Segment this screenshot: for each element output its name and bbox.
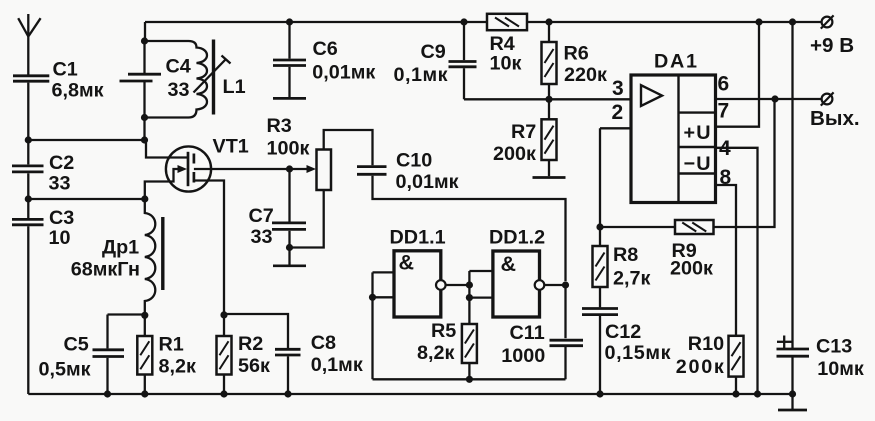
svg-text:Вых.: Вых.	[810, 107, 860, 130]
label C5	[64, 334, 89, 356]
node DD1.2 in upper	[466, 281, 473, 288]
wire node rail y140	[28, 139, 144, 141]
svg-text:2,7к: 2,7к	[613, 268, 650, 290]
svg-text:C9: C9	[421, 41, 446, 63]
svg-text:8,2к: 8,2к	[159, 356, 196, 378]
node C8 gnd	[284, 390, 291, 397]
svg-text:0,1мк: 0,1мк	[311, 354, 363, 376]
resistor R2	[217, 315, 232, 394]
capacitor C6	[273, 60, 306, 66]
label R7	[511, 121, 536, 143]
DA1 -U	[684, 153, 711, 175]
label C5 value	[39, 359, 91, 381]
label R4 value	[490, 53, 522, 75]
pin 8	[720, 166, 732, 189]
node R1 gnd	[141, 390, 148, 397]
label C3	[49, 207, 74, 229]
label R3	[267, 115, 292, 137]
node quench out	[562, 281, 569, 288]
wire tank to VT1	[146, 140, 188, 158]
label Dr1	[102, 237, 139, 259]
label C13	[816, 336, 852, 358]
svg-text:0,15мк: 0,15мк	[605, 342, 671, 364]
svg-text:R8: R8	[613, 244, 638, 266]
capacitor C5	[93, 350, 125, 357]
wire node rail y199	[28, 198, 145, 200]
svg-text:0,01мк: 0,01мк	[312, 62, 375, 84]
svg-text:C4: C4	[166, 56, 191, 78]
svg-text:33: 33	[168, 79, 190, 101]
pin 3	[612, 77, 624, 100]
label VT1	[213, 136, 249, 158]
svg-text:C7: C7	[249, 205, 274, 227]
label R6 value	[564, 64, 607, 86]
label C2 value	[49, 173, 71, 195]
svg-text:8: 8	[720, 166, 732, 189]
capacitor C11	[550, 340, 584, 346]
node B1	[25, 195, 32, 202]
capacitor C7	[272, 223, 306, 230]
label C4 value	[168, 79, 190, 101]
node R6 top	[545, 18, 552, 25]
label C4	[166, 56, 191, 78]
svg-text:8,2к: 8,2к	[417, 342, 454, 364]
label R8	[613, 244, 638, 266]
label R9 value	[670, 258, 713, 280]
label Vykh	[810, 107, 860, 130]
label C10 value	[396, 171, 459, 193]
DD1.1 AND sign	[399, 251, 415, 275]
resistor R5	[462, 324, 477, 379]
label C8 value	[311, 354, 363, 376]
wire DD1.1 out	[446, 284, 470, 286]
inductor L1	[145, 41, 208, 118]
node R6 bottom	[545, 96, 552, 103]
DA1 divider	[677, 75, 679, 203]
wire C7 branch	[288, 169, 290, 265]
ground below C6	[273, 97, 306, 100]
label R5 value	[417, 342, 454, 364]
svg-text:R2: R2	[238, 333, 263, 355]
svg-text:R6: R6	[564, 43, 589, 65]
node source	[220, 311, 227, 318]
wire gate lead	[145, 169, 179, 199]
node C7 tap	[286, 165, 293, 172]
capacitor C1	[13, 76, 49, 81]
capacitor C9	[449, 62, 477, 67]
svg-text:100к: 100к	[267, 138, 310, 160]
VT1 source segment	[193, 172, 196, 183]
svg-text:33: 33	[251, 226, 273, 248]
wire to C8	[224, 314, 288, 348]
svg-text:VT1: VT1	[213, 136, 249, 158]
svg-text:68мкГн: 68мкГн	[71, 259, 140, 281]
VT1 drain segment	[193, 154, 196, 164]
wire R9 to output	[714, 99, 775, 227]
DD1.1 output bubble	[436, 280, 446, 290]
antenna	[18, 18, 40, 36]
terminal output	[821, 92, 834, 105]
svg-text:200к: 200к	[493, 143, 536, 165]
node C9 top	[460, 18, 467, 25]
node R10 gnd	[732, 390, 739, 397]
svg-text:10мк: 10мк	[817, 358, 864, 380]
wire DD1.2 inputs	[469, 271, 493, 324]
label C12	[605, 321, 641, 343]
label +9V	[810, 34, 854, 57]
wire pin3	[549, 98, 631, 100]
wire C8 bottom	[287, 356, 289, 394]
svg-text:C11: C11	[510, 322, 545, 344]
label C9	[421, 41, 446, 63]
svg-text:&: &	[501, 252, 517, 276]
ground below R7	[533, 176, 566, 179]
svg-text:56к: 56к	[238, 355, 270, 377]
logic gate DD1.2	[493, 251, 540, 317]
label R2	[238, 333, 263, 355]
wire R8 to R9	[600, 226, 675, 228]
wire C9 branch	[464, 22, 549, 99]
label C11 value	[501, 345, 545, 367]
svg-text:R7: R7	[511, 121, 536, 143]
DD1.2 AND sign	[501, 252, 517, 276]
svg-text:0,5мк: 0,5мк	[39, 359, 91, 381]
svg-text:10: 10	[49, 227, 71, 249]
L1 adjust arrow	[194, 56, 231, 93]
svg-text:C6: C6	[313, 38, 338, 60]
wire C10 to DD1.2 out	[373, 176, 566, 281]
wire tank C4 branch	[143, 22, 146, 140]
wire VT1 to R3	[194, 168, 308, 170]
svg-text:&: &	[399, 251, 415, 275]
pin 4	[719, 137, 731, 160]
svg-text:4: 4	[719, 137, 731, 160]
svg-text:R3: R3	[267, 115, 292, 137]
wire top +9V rail	[145, 21, 822, 23]
label C7 value	[251, 226, 273, 248]
ground symbol bottom right	[778, 394, 807, 410]
svg-text:DD1.2: DD1.2	[489, 227, 545, 249]
DA1 triangle	[641, 85, 662, 106]
wire +9V down to C13	[791, 22, 793, 349]
wire C11 top	[564, 285, 566, 338]
op-amp DA1 box	[631, 75, 716, 203]
svg-text:200к: 200к	[670, 258, 713, 280]
node R8 top	[596, 223, 603, 230]
VT1 channel line	[187, 152, 190, 186]
wire pin8	[716, 185, 737, 336]
svg-text:7: 7	[718, 100, 730, 123]
pin 6	[718, 73, 730, 96]
R3 wiper arrow	[307, 165, 317, 173]
ground below C7	[273, 264, 306, 267]
svg-text:0,01мк: 0,01мк	[396, 171, 459, 193]
wire R3 bottom	[290, 190, 324, 248]
logic gate DD1.1	[394, 251, 441, 317]
wire C12 bottom	[599, 316, 601, 394]
DD1.2 output bubble	[535, 280, 545, 290]
wire pin4	[716, 148, 758, 394]
capacitor C2	[12, 166, 44, 172]
transistor VT1 body	[166, 146, 211, 191]
label R3 value	[267, 138, 310, 160]
node C5 gnd	[104, 390, 111, 397]
capacitor C10	[357, 167, 387, 175]
resistor R8	[593, 227, 608, 307]
node pin7 rail	[755, 18, 762, 25]
label C3 value	[49, 227, 71, 249]
label C1	[53, 59, 78, 81]
pin 2	[612, 101, 624, 124]
C13 polarity +	[777, 336, 792, 349]
wire to C5	[108, 315, 145, 349]
label C6	[313, 38, 338, 60]
wire pin6 output	[716, 98, 822, 100]
wire DD1.1 inputs	[373, 272, 395, 379]
resistor R1	[137, 315, 152, 394]
wire C5 bottom	[106, 358, 108, 394]
svg-text:C2: C2	[49, 152, 74, 174]
svg-text:1000: 1000	[501, 345, 545, 367]
node DD1.2 in lower	[466, 294, 473, 301]
resistor R7	[542, 99, 557, 176]
label C2	[49, 152, 74, 174]
node R2 gnd	[220, 390, 227, 397]
resistor R6	[542, 22, 557, 99]
svg-text:6,8мк: 6,8мк	[52, 80, 104, 102]
label DA1	[654, 51, 697, 73]
wire left column (antenna feed)	[27, 14, 29, 394]
svg-text:220к: 220к	[564, 64, 607, 86]
svg-text:C10: C10	[396, 150, 432, 172]
resistor R4	[487, 14, 527, 30]
svg-text:C5: C5	[64, 334, 89, 356]
svg-text:L1: L1	[223, 76, 246, 98]
svg-text:C3: C3	[49, 207, 74, 229]
label C11	[510, 322, 545, 344]
label C13 value	[817, 358, 864, 380]
node tank top	[141, 37, 148, 44]
svg-text:C13: C13	[816, 336, 852, 358]
capacitor C12	[582, 309, 618, 315]
label C1 value	[52, 80, 104, 102]
label DD1.2	[489, 227, 545, 249]
DA1 +U	[684, 122, 711, 144]
Dr1 core bar	[161, 217, 164, 290]
label Dr1 value	[71, 259, 140, 281]
label R10 value	[676, 356, 724, 378]
svg-text:R10: R10	[688, 333, 724, 355]
node R5 bottom	[466, 376, 473, 383]
node C13 gnd	[789, 390, 796, 397]
svg-text:DA1: DA1	[654, 51, 697, 73]
label DD1.1	[390, 227, 446, 249]
svg-text:−U: −U	[684, 153, 711, 175]
capacitor C8	[275, 349, 301, 355]
svg-text:+U: +U	[684, 122, 711, 144]
wire pin2	[600, 128, 631, 227]
svg-text:+9 В: +9 В	[810, 34, 854, 57]
label R10	[688, 333, 724, 355]
resistor R3 (pot)	[317, 150, 332, 191]
terminal +9V	[821, 15, 834, 28]
svg-text:10к: 10к	[490, 53, 522, 75]
wire DD1.2 out	[544, 284, 565, 286]
node C12 gnd	[596, 390, 603, 397]
svg-text:Др1: Др1	[102, 237, 139, 259]
label C10	[396, 150, 432, 172]
wire feedback loop	[373, 346, 566, 379]
label R2 value	[238, 355, 270, 377]
label R5	[431, 320, 456, 342]
node DD1.1 input	[369, 294, 376, 301]
label C8	[311, 332, 336, 354]
label R1 value	[159, 356, 196, 378]
inductor Dr1	[145, 199, 156, 315]
label R6	[564, 43, 589, 65]
resistor R10	[729, 336, 744, 394]
svg-text:DD1.1: DD1.1	[390, 227, 446, 249]
resistor R9	[675, 220, 714, 234]
wire bottom common rail	[28, 393, 792, 395]
wire R3 top to C10	[324, 130, 373, 165]
node C7 bottom	[286, 244, 293, 251]
VT1 gate arrow	[178, 165, 188, 173]
L1 core bar	[212, 40, 215, 115]
node B2	[141, 195, 148, 202]
capacitor C3	[12, 219, 44, 224]
wire VT1 source down	[194, 181, 224, 315]
node A2	[141, 136, 148, 143]
wire pin7	[716, 22, 760, 127]
svg-text:R5: R5	[431, 320, 456, 342]
label C7	[249, 205, 274, 227]
svg-text:33: 33	[49, 173, 71, 195]
node tank bottom	[141, 114, 148, 121]
DA1 cell lines	[679, 113, 716, 174]
label C6 value	[312, 62, 375, 84]
label C12 value	[605, 342, 671, 364]
label C9 value	[394, 64, 448, 86]
node Dr1 bottom	[141, 312, 148, 319]
capacitor C13	[777, 349, 810, 356]
node A1	[25, 136, 32, 143]
node pin4 gnd	[754, 390, 761, 397]
label R8 value	[613, 268, 650, 290]
svg-text:2: 2	[612, 101, 624, 124]
svg-text:3: 3	[612, 77, 624, 100]
svg-text:R1: R1	[159, 334, 184, 356]
label R7 value	[493, 143, 536, 165]
node C6 top	[286, 18, 293, 25]
label L1	[223, 76, 246, 98]
label R9	[672, 240, 697, 262]
node out tap	[771, 95, 778, 102]
svg-text:C12: C12	[605, 321, 641, 343]
label R4	[490, 33, 515, 55]
wire C13 bottom	[791, 357, 793, 394]
pin 7	[718, 100, 730, 123]
svg-text:C8: C8	[311, 332, 336, 354]
capacitor C4	[120, 74, 162, 81]
svg-text:0,1мк: 0,1мк	[394, 64, 448, 86]
wire C6 branch	[288, 22, 290, 97]
label R1	[159, 334, 184, 356]
svg-text:C1: C1	[53, 59, 78, 81]
svg-text:6: 6	[718, 73, 730, 96]
node +9V tap	[789, 18, 796, 25]
